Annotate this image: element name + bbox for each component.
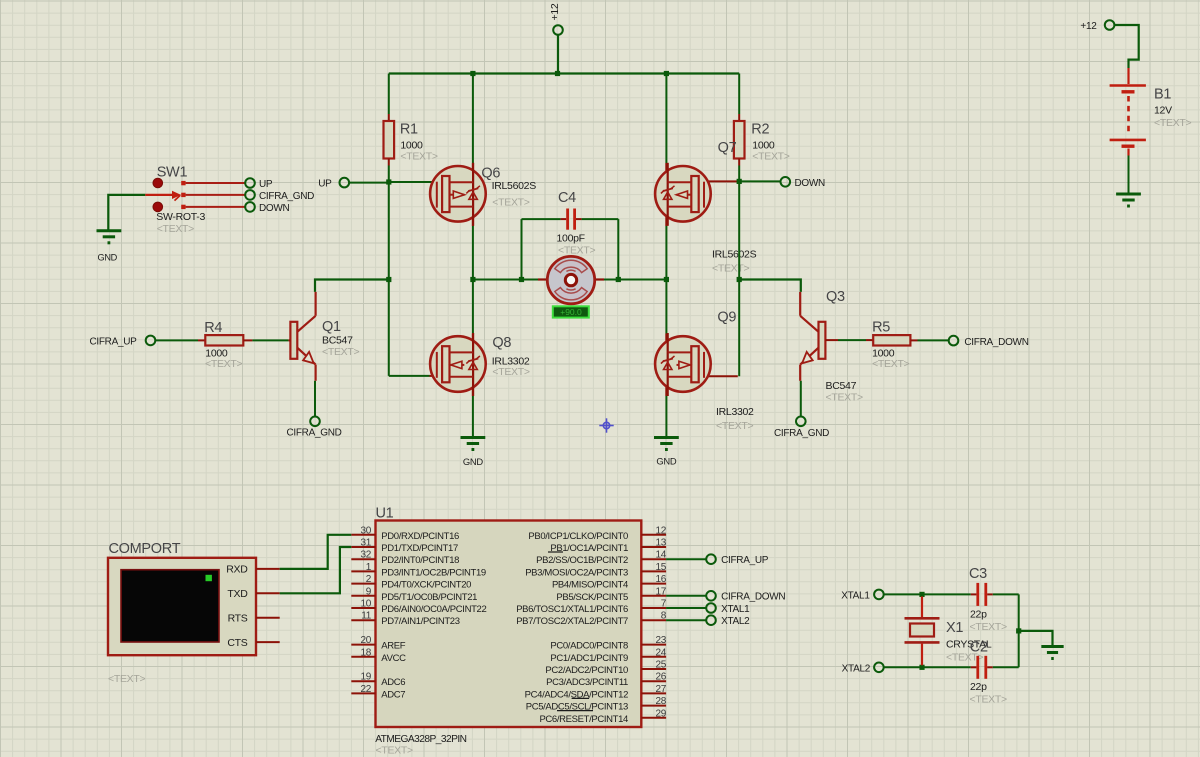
ground below Q8: [461, 436, 486, 439]
svg-text:PB6/TOSC1/XTAL1/PCINT6: PB6/TOSC1/XTAL1/PCINT6: [516, 604, 628, 615]
svg-text:PC1/ADC1/PCINT9: PC1/ADC1/PCINT9: [550, 653, 628, 664]
pin 27 PC4/ADC4/SDA/PCINT12 (U1 right): [641, 692, 666, 694]
resistor R2: [738, 74, 740, 115]
svg-text:100pF: 100pF: [557, 232, 585, 244]
capacitor C3 22p: [971, 593, 977, 595]
pin 30 PD0/RXD/PCINT16 (U1 left): [351, 534, 375, 536]
pin 31 PD1/TXD/PCINT17 (U1 left): [351, 546, 375, 548]
svg-text:+12: +12: [549, 3, 561, 20]
switch SW1 SW-ROT-3: [108, 195, 145, 231]
SW1 position dots: [153, 178, 163, 188]
wire Q1 emitter to CIFRA_GND terminal: [314, 381, 316, 417]
pin 11 PD7/AIN1/PCINT23 (U1 left): [351, 619, 375, 621]
svg-text:<TEXT>: <TEXT>: [1154, 117, 1191, 129]
svg-text:<TEXT>: <TEXT>: [872, 358, 909, 370]
resistor R1: [388, 74, 390, 115]
node UP/motor-left-branch: [386, 277, 391, 282]
svg-text:30: 30: [360, 525, 371, 536]
svg-text:29: 29: [655, 708, 666, 719]
transistor Q3 BC547: [819, 322, 826, 359]
svg-text:<TEXT>: <TEXT>: [716, 420, 753, 432]
wire motor right: [604, 279, 667, 281]
mosfet Q9 IRL3302: [665, 280, 667, 334]
svg-text:R2: R2: [751, 122, 769, 138]
svg-text:R5: R5: [872, 320, 890, 336]
svg-text:X1: X1: [946, 620, 963, 636]
node Q6-Q8/motor: [470, 277, 475, 282]
wire pin14 to CIFRA_UP: [666, 558, 707, 560]
svg-text:IRL5602S: IRL5602S: [492, 180, 537, 192]
svg-text:IRL3302: IRL3302: [716, 406, 754, 418]
svg-text:DOWN: DOWN: [259, 203, 290, 214]
svg-text:GND: GND: [656, 456, 676, 467]
svg-text:<TEXT>: <TEXT>: [712, 263, 749, 275]
svg-text:Q3: Q3: [826, 289, 845, 305]
svg-text:BC547: BC547: [322, 334, 353, 346]
svg-text:19: 19: [360, 672, 371, 683]
svg-text:11: 11: [361, 611, 372, 622]
origin marker (blue crosshair): [599, 418, 613, 432]
SW1 contact pads: [181, 181, 185, 185]
svg-text:PC3/ADC3/PCINT11: PC3/ADC3/PCINT11: [546, 677, 628, 688]
svg-text:<TEXT>: <TEXT>: [492, 196, 529, 208]
pin 8 PB7/TOSC2/XTAL2/PCINT7 (U1 right): [641, 619, 666, 621]
ic U1 ATMEGA328P_32PIN: [376, 521, 642, 728]
ground below SW1: [97, 229, 122, 232]
svg-text:XTAL1: XTAL1: [841, 591, 870, 602]
terminal +12 (top): [553, 25, 563, 35]
svg-text:PD7/AIN1/PCINT23: PD7/AIN1/PCINT23: [381, 616, 459, 627]
motor (DC motor): [538, 278, 547, 280]
wire C3-C2 right vertical: [1018, 594, 1020, 667]
terminal XTAL2 (U1): [706, 615, 716, 625]
svg-text:32: 32: [360, 550, 371, 561]
svg-text:PB3/MOSI/OC2A/PCINT3: PB3/MOSI/OC2A/PCINT3: [525, 567, 628, 578]
svg-text:PB7/TOSC2/XTAL2/PCINT7: PB7/TOSC2/XTAL2/PCINT7: [516, 616, 628, 627]
capacitor C4 100pF: [522, 218, 561, 220]
svg-text:SW1: SW1: [157, 165, 188, 181]
node gnd branch: [1016, 628, 1021, 633]
node XTAL1/X1: [919, 592, 924, 597]
terminal XTAL1 (U1): [706, 603, 716, 613]
node C4 left: [519, 277, 524, 282]
ground (crystal): [1041, 645, 1063, 648]
svg-text:R4: R4: [204, 320, 222, 336]
terminal CIFRA_DOWN (right): [949, 336, 959, 346]
terminal DOWN: [781, 177, 791, 187]
mosfet Q8 IRL3302: [472, 280, 474, 334]
svg-text:GND: GND: [98, 252, 118, 262]
wire DOWN net vertical (to Q9 gate): [738, 181, 740, 376]
svg-text:B1: B1: [1154, 87, 1171, 103]
svg-text:UP: UP: [318, 178, 332, 189]
svg-text:CIFRA_GND: CIFRA_GND: [286, 428, 341, 439]
mosfet Q7 IRL5602S: [704, 180, 740, 182]
svg-text:C2: C2: [970, 640, 988, 656]
svg-text:13: 13: [655, 538, 666, 549]
wire XTAL2 row: [883, 666, 970, 668]
svg-text:<TEXT>: <TEXT>: [492, 366, 529, 378]
svg-text:PB4/MISO/PCINT4: PB4/MISO/PCINT4: [552, 580, 628, 591]
node C4 right: [616, 277, 621, 282]
svg-text:PB5/SCK/PCINT5: PB5/SCK/PCINT5: [556, 592, 628, 603]
svg-text:<TEXT>: <TEXT>: [157, 223, 194, 235]
svg-text:12: 12: [655, 525, 666, 536]
pin 1 PD3/INT1/OC2B/PCINT19 (U1 left): [351, 570, 375, 572]
wire Q7 drain-source column: [665, 74, 667, 164]
svg-text:CTS: CTS: [227, 637, 247, 649]
pin 2 PD4/T0/XCK/PCINT20 (U1 left): [351, 583, 375, 585]
wire UP net vertical (to Q8 gate): [388, 182, 390, 376]
svg-text:<TEXT>: <TEXT>: [752, 151, 789, 163]
svg-text:22p: 22p: [970, 608, 987, 620]
terminal XTAL1 (crystal): [874, 590, 884, 600]
svg-text:Q9: Q9: [717, 310, 736, 326]
svg-text:<TEXT>: <TEXT>: [826, 392, 863, 404]
node DOWN junction: [737, 179, 742, 184]
transistor Q1 BC547: [290, 322, 297, 359]
wire Q3 emitter to CIFRA_GND terminal: [800, 381, 802, 417]
svg-text:AREF: AREF: [381, 641, 405, 652]
svg-text:12V: 12V: [1154, 105, 1172, 117]
svg-text:16: 16: [655, 574, 666, 585]
svg-text:7: 7: [661, 599, 667, 610]
svg-text:20: 20: [360, 635, 371, 646]
terminal CIFRA_GND (Q3): [796, 417, 806, 427]
svg-text:RXD: RXD: [226, 564, 248, 576]
svg-text:PC0/ADC0/PCINT8: PC0/ADC0/PCINT8: [550, 641, 628, 652]
svg-text:PD3/INT1/OC2B/PCINT19: PD3/INT1/OC2B/PCINT19: [381, 567, 486, 578]
pin 12 PB0/ICP1/CLKO/PCINT0 (U1 right): [641, 534, 666, 536]
svg-text:22: 22: [360, 684, 371, 695]
svg-text:PC2/ADC2/PCINT10: PC2/ADC2/PCINT10: [545, 665, 628, 676]
svg-text:PB2/SS/OC1B/PCINT2: PB2/SS/OC1B/PCINT2: [536, 555, 628, 566]
svg-text:TXD: TXD: [227, 588, 248, 600]
terminal CIFRA_UP (U1): [706, 554, 716, 564]
terminal CIFRA_DOWN (U1): [706, 591, 716, 601]
pin 17 PB5/SCK/PCINT5 (U1 right): [641, 595, 666, 597]
svg-text:ATMEGA328P_32PIN: ATMEGA328P_32PIN: [375, 734, 466, 745]
terminal UP (near Q6): [340, 178, 350, 188]
svg-text:<TEXT>: <TEXT>: [205, 358, 242, 370]
wire pin8 to XTAL2: [666, 619, 707, 621]
pin 25 PC2/ADC2/PCINT10 (U1 right): [641, 668, 666, 670]
pin CTS (COMPORT): [256, 641, 280, 643]
svg-text:26: 26: [655, 672, 666, 683]
overline SCL (pin 28): [572, 697, 590, 699]
pin 24 PC1/ADC1/PCINT9 (U1 right): [641, 656, 666, 658]
svg-text:C4: C4: [558, 190, 576, 206]
svg-text:RTS: RTS: [228, 613, 248, 625]
terminal UP (SW1): [245, 178, 255, 188]
svg-text:+90.0: +90.0: [560, 307, 582, 317]
pin 7 PB6/TOSC1/XTAL1/PCINT6 (U1 right): [641, 607, 666, 609]
wire to crystal ground: [1019, 631, 1053, 646]
svg-text:9: 9: [366, 586, 372, 597]
svg-text:28: 28: [655, 696, 666, 707]
svg-text:CIFRA_DOWN: CIFRA_DOWN: [721, 592, 785, 603]
wire Q6 drain-source column: [472, 74, 474, 164]
pin 15 PB3/MOSI/OC2A/PCINT3 (U1 right): [641, 570, 666, 572]
svg-text:<TEXT>: <TEXT>: [400, 151, 437, 163]
svg-text:CIFRA_DOWN: CIFRA_DOWN: [964, 337, 1028, 348]
svg-text:ADC7: ADC7: [381, 689, 405, 700]
terminal CIFRA_GND (SW1): [245, 190, 255, 200]
terminal CIFRA_GND (Q1): [310, 417, 320, 427]
terminal XTAL2 (crystal): [874, 663, 884, 673]
svg-text:PC6/RESET/PCINT14: PC6/RESET/PCINT14: [539, 714, 628, 725]
wire +12 drop: [557, 35, 559, 74]
svg-text:PD2/INT0/PCINT18: PD2/INT0/PCINT18: [381, 555, 459, 566]
wire RXD to pin30: [280, 535, 352, 569]
capacitor C2 22p: [971, 666, 977, 668]
pin 29 PC6/RESET/PCINT14 (U1 right): [641, 717, 666, 719]
svg-text:ADC6: ADC6: [381, 677, 405, 688]
overline RESET (pin 29): [557, 710, 593, 712]
wire Q3 collector to DOWN column: [739, 280, 801, 292]
node rail/+12: [555, 71, 560, 76]
svg-text:PB0/ICP1/CLKO/PCINT0: PB0/ICP1/CLKO/PCINT0: [528, 531, 628, 542]
wire pin17 to CIFRA_DOWN: [666, 595, 707, 597]
node DOWN/Q3-branch: [737, 277, 742, 282]
svg-text:25: 25: [655, 660, 666, 671]
svg-text:17: 17: [655, 586, 666, 597]
svg-text:C3: C3: [969, 566, 987, 582]
svg-text:18: 18: [360, 647, 371, 658]
svg-text:1: 1: [366, 562, 372, 573]
pin 26 PC3/ADC3/PCINT11 (U1 right): [641, 680, 666, 682]
wire pin7 to XTAL1: [666, 607, 707, 609]
svg-text:UP: UP: [259, 179, 273, 190]
svg-text:GND: GND: [463, 456, 483, 467]
svg-text:XTAL2: XTAL2: [842, 663, 871, 674]
pin RTS (COMPORT): [256, 617, 280, 619]
svg-text:PD0/RXD/PCINT16: PD0/RXD/PCINT16: [381, 531, 459, 542]
svg-text:Q7: Q7: [718, 140, 737, 156]
pin 28 PC5/ADC5/SCL/PCINT13 (U1 right): [641, 705, 666, 707]
pin 18 AVCC (U1 left): [351, 656, 375, 658]
svg-text:8: 8: [661, 611, 667, 622]
svg-text:24: 24: [655, 647, 666, 658]
svg-text:AVCC: AVCC: [381, 653, 406, 664]
node rail/Q6: [470, 71, 475, 76]
svg-text:<TEXT>: <TEXT>: [108, 673, 145, 685]
overline SS (pin 14): [548, 551, 563, 553]
wire Q1 collector to UP column: [315, 280, 389, 292]
pin 16 PB4/MISO/PCINT4 (U1 right): [641, 583, 666, 585]
crystal X1: [921, 596, 923, 617]
svg-text:XTAL1: XTAL1: [721, 604, 750, 615]
svg-text:R1: R1: [400, 122, 418, 138]
resistor R5 1000: [825, 339, 838, 341]
comport P1 (serial port): [108, 558, 256, 655]
node XTAL2/X1: [919, 665, 924, 670]
resistor R4 1000: [146, 336, 156, 346]
svg-text:COMPORT: COMPORT: [109, 541, 181, 557]
svg-text:15: 15: [655, 562, 666, 573]
svg-text:<TEXT>: <TEXT>: [322, 346, 359, 358]
svg-text:10: 10: [360, 599, 371, 610]
pin TXD (COMPORT): [256, 592, 280, 594]
node UP junction: [386, 179, 391, 184]
svg-text:XTAL2: XTAL2: [721, 616, 750, 627]
svg-text:14: 14: [655, 550, 666, 561]
svg-text:CIFRA_GND: CIFRA_GND: [259, 191, 314, 202]
SW1 wiper arrow: [145, 194, 173, 196]
svg-text:2: 2: [366, 574, 372, 585]
motor rpm display +90.0: [553, 306, 589, 317]
svg-text:Q8: Q8: [492, 335, 511, 351]
svg-text:PD1/TXD/PCINT17: PD1/TXD/PCINT17: [381, 543, 458, 554]
svg-text:CIFRA_UP: CIFRA_UP: [721, 555, 769, 566]
wire TXD to pin31: [280, 547, 352, 593]
node Q7-Q9/motor: [664, 277, 669, 282]
svg-text:<TEXT>: <TEXT>: [970, 621, 1007, 633]
wire DOWN junction to terminal: [739, 180, 781, 182]
terminal DOWN (SW1): [245, 202, 255, 212]
svg-text:CIFRA_UP: CIFRA_UP: [89, 336, 137, 347]
wire +12 top rail: [389, 72, 739, 74]
pin 22 ADC7 (U1 left): [351, 692, 375, 694]
pin 9 PD5/T1/OC0B/PCINT21 (U1 left): [351, 595, 375, 597]
node rail/Q7: [664, 71, 669, 76]
ground below Q9: [654, 436, 679, 439]
svg-text:CIFRA_GND: CIFRA_GND: [774, 428, 829, 439]
svg-text:31: 31: [360, 538, 371, 549]
svg-text:BC547: BC547: [826, 380, 857, 392]
svg-text:PD6/AIN0/OC0A/PCINT22: PD6/AIN0/OC0A/PCINT22: [381, 604, 486, 615]
pin 20 AREF (U1 left): [351, 644, 375, 646]
svg-text:IRL5602S: IRL5602S: [712, 249, 757, 261]
svg-text:Q1: Q1: [322, 319, 341, 335]
pin 14 PB2/SS/OC1B/PCINT2 (U1 right): [641, 558, 666, 560]
svg-text:DOWN: DOWN: [795, 178, 826, 189]
svg-text:22p: 22p: [970, 681, 987, 693]
svg-text:+12: +12: [1080, 21, 1097, 32]
svg-text:PD4/T0/XCK/PCINT20: PD4/T0/XCK/PCINT20: [381, 580, 471, 591]
svg-text:PD5/T1/OC0B/PCINT21: PD5/T1/OC0B/PCINT21: [381, 592, 477, 603]
comport activity led: [206, 575, 212, 581]
pin 32 PD2/INT0/PCINT18 (U1 left): [351, 558, 375, 560]
svg-text:<TEXT>: <TEXT>: [376, 745, 413, 757]
wire motor left: [473, 279, 538, 281]
mosfet Q6 IRL5602S: [389, 181, 432, 183]
ground below B1: [1116, 193, 1141, 196]
pin 19 ADC6 (U1 left): [351, 680, 375, 682]
pin 10 PD6/AIN0/OC0A/PCINT22 (U1 left): [351, 607, 375, 609]
svg-text:23: 23: [655, 635, 666, 646]
pin 13 PB1/OC1A/PCINT1 (U1 right): [641, 546, 666, 548]
svg-text:<TEXT>: <TEXT>: [558, 245, 595, 257]
svg-text:U1: U1: [376, 506, 394, 522]
wire XTAL1 row: [883, 593, 970, 595]
svg-text:SW-ROT-3: SW-ROT-3: [156, 211, 205, 223]
svg-text:<TEXT>: <TEXT>: [970, 694, 1007, 706]
wire UP terminal to junction: [349, 182, 389, 184]
pin RXD (COMPORT): [256, 568, 280, 570]
svg-text:27: 27: [655, 684, 666, 695]
pin 23 PC0/ADC0/PCINT8 (U1 right): [641, 644, 666, 646]
SW1 pole wires: [186, 182, 246, 184]
battery B1 12V: [1105, 20, 1115, 30]
